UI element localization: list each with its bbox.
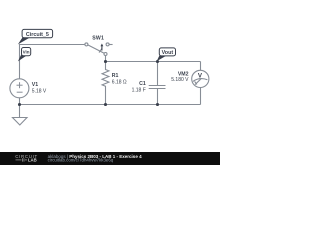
switch SW1 arrow	[101, 44, 104, 51]
node junction C1 bottom / rail	[156, 103, 159, 106]
svg-text:5.180 V: 5.180 V	[171, 77, 189, 83]
svg-text:Circuit_5: Circuit_5	[26, 32, 49, 38]
wire V1 top to switch	[20, 45, 85, 79]
wire right branch down to voltmeter	[200, 62, 202, 71]
switch SW1 throw upper	[106, 43, 109, 46]
wire ground stem	[19, 105, 21, 118]
svg-text:SW1: SW1	[92, 35, 104, 41]
voltmeter VM2	[192, 70, 209, 87]
ground	[13, 118, 28, 126]
flag Circuit_5	[18, 29, 53, 44]
node junction V1 / ground rail	[18, 103, 21, 106]
svg-text:Vin: Vin	[23, 49, 30, 54]
voltage source V1	[10, 79, 29, 98]
svg-text:Vout: Vout	[162, 50, 174, 56]
svg-text:C1: C1	[139, 81, 146, 87]
svg-text:5.18 V: 5.18 V	[32, 88, 47, 94]
flag Vin	[18, 48, 31, 62]
wire top rail	[106, 61, 201, 63]
switch SW1 pole	[85, 43, 88, 46]
svg-text:1.18 F: 1.18 F	[132, 87, 146, 93]
svg-text:6.18 Ω: 6.18 Ω	[112, 79, 127, 85]
V1 plus minus	[17, 82, 23, 92]
labels	[32, 35, 203, 94]
node junction switch throw / R1 top	[104, 60, 107, 63]
svg-text:R1: R1	[112, 73, 119, 79]
svg-text:circuitlab.com/c/7dh4hvw7kk3e6: circuitlab.com/c/7dh4hvw7kk3e6q	[48, 158, 114, 163]
resistor R1	[102, 62, 109, 105]
switch SW1 lever	[88, 45, 104, 53]
wire bottom rail	[20, 104, 201, 106]
node junction R1 bottom / rail	[104, 103, 107, 106]
footer logo LAB	[16, 158, 28, 161]
switch SW1 throw lower	[104, 53, 107, 56]
wire V1 bottom to rail	[19, 98, 21, 105]
svg-text:V1: V1	[32, 82, 38, 88]
flag Vout	[157, 48, 176, 61]
wire switch throw down to node	[105, 56, 107, 62]
footer bar	[0, 152, 220, 165]
node junction Vout / C1 top	[156, 60, 159, 63]
svg-text:LAB: LAB	[28, 158, 37, 163]
switch SW1 tick	[99, 48, 102, 52]
capacitor C1	[157, 62, 159, 86]
